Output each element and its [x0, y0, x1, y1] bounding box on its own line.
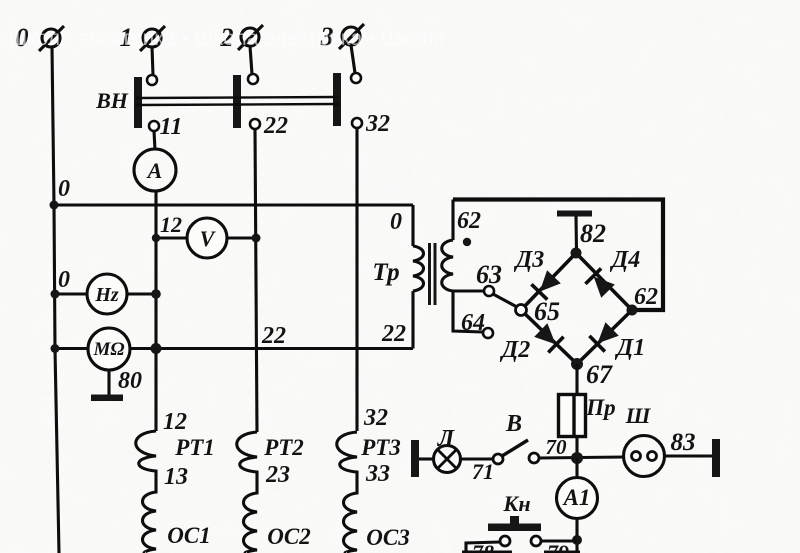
svg-text:А: А — [146, 158, 163, 183]
svg-text:22: 22 — [263, 113, 288, 139]
svg-text:Д1: Д1 — [615, 335, 645, 361]
svg-text:Тр: Тр — [372, 259, 399, 286]
svg-text:12: 12 — [160, 212, 182, 237]
svg-text:82: 82 — [580, 219, 606, 248]
svg-text:22: 22 — [381, 321, 406, 347]
svg-text:32: 32 — [363, 405, 388, 431]
svg-text:РТ3: РТ3 — [360, 435, 401, 460]
svg-text:Д2: Д2 — [500, 337, 530, 363]
svg-text:Hz: Hz — [94, 284, 119, 306]
svg-text:62: 62 — [634, 284, 658, 310]
svg-text:79: 79 — [547, 540, 569, 553]
svg-text:V: V — [200, 226, 217, 251]
svg-text:83: 83 — [671, 429, 696, 456]
svg-text:РТ2: РТ2 — [263, 435, 304, 460]
svg-text:Школа электрика • Школа электр: Школа электрика • Школа электрика • Школ… — [8, 27, 445, 50]
svg-text:32: 32 — [365, 111, 390, 137]
svg-text:78: 78 — [472, 540, 494, 553]
svg-text:Кн: Кн — [502, 491, 530, 516]
svg-text:0: 0 — [58, 176, 70, 202]
svg-text:33: 33 — [365, 461, 390, 487]
svg-text:71: 71 — [472, 459, 494, 484]
svg-text:ВН: ВН — [95, 88, 129, 113]
svg-text:МΩ: МΩ — [92, 339, 124, 360]
svg-text:Пр: Пр — [585, 395, 615, 420]
svg-text:64: 64 — [461, 310, 485, 336]
svg-text:А1: А1 — [562, 485, 591, 510]
svg-text:62: 62 — [457, 208, 481, 234]
svg-text:13: 13 — [164, 464, 188, 490]
svg-text:Ш: Ш — [625, 403, 652, 428]
svg-text:Д3: Д3 — [514, 247, 544, 273]
svg-text:23: 23 — [265, 462, 290, 488]
svg-text:11: 11 — [160, 114, 183, 140]
svg-text:12: 12 — [163, 409, 187, 435]
svg-text:ОС3: ОС3 — [366, 525, 409, 550]
svg-text:0: 0 — [58, 267, 70, 293]
svg-text:22: 22 — [261, 323, 286, 349]
svg-text:Л: Л — [437, 426, 456, 452]
svg-text:В: В — [505, 411, 522, 437]
svg-text:0: 0 — [390, 209, 402, 235]
svg-text:63: 63 — [476, 260, 502, 289]
svg-text:67: 67 — [586, 360, 613, 389]
svg-text:ОС2: ОС2 — [267, 524, 310, 549]
svg-text:ОС1: ОС1 — [167, 523, 210, 548]
svg-text:Д4: Д4 — [610, 247, 640, 273]
svg-text:80: 80 — [118, 368, 142, 394]
svg-text:РТ1: РТ1 — [174, 435, 215, 460]
svg-text:70: 70 — [546, 435, 568, 459]
svg-text:65: 65 — [534, 297, 560, 326]
